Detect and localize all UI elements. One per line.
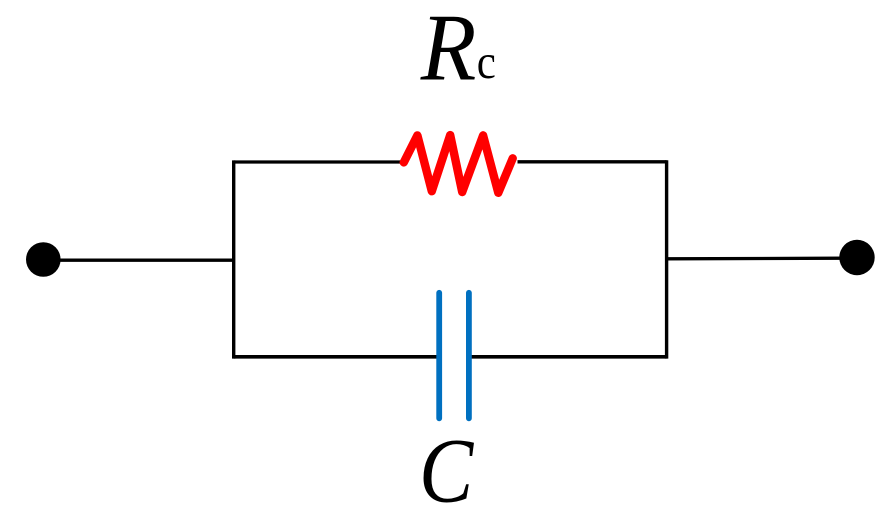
svg-text:c: c: [477, 35, 496, 89]
svg-text:C: C: [419, 419, 474, 522]
svg-text:R: R: [420, 0, 477, 101]
